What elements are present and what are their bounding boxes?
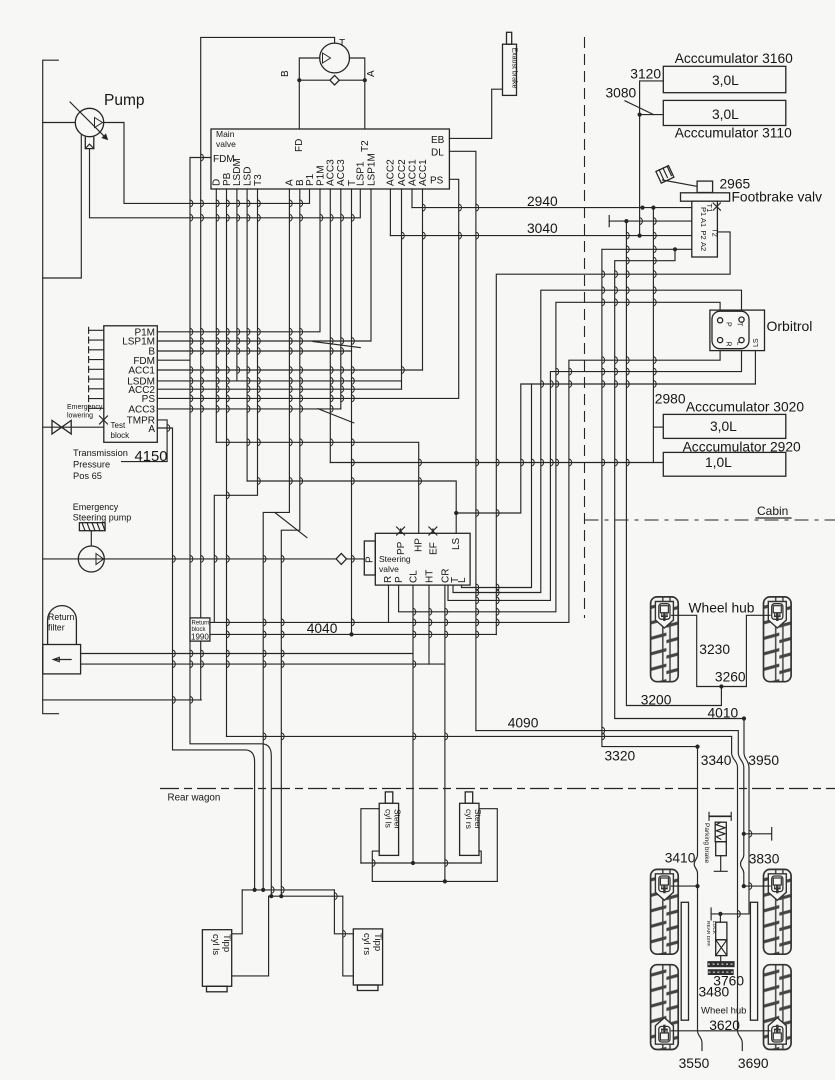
wire test block TMPR with 4150 leader — [122, 420, 168, 462]
svg-text:3620: 3620 — [709, 1018, 740, 1033]
diff lock hatched bar 1 — [707, 961, 734, 967]
wire B-A link with check valve — [299, 79, 365, 81]
svg-text:4150: 4150 — [135, 449, 168, 465]
wire steer line lower — [372, 880, 497, 882]
svg-text:3080: 3080 — [606, 86, 637, 101]
wire tank line left border — [43, 60, 59, 714]
svg-text:ACC2: ACC2 — [397, 159, 408, 186]
LEFT-BORDER-GROUP — [43, 60, 445, 714]
parking brake drain — [714, 856, 727, 872]
svg-text:LSD: LSD — [242, 167, 253, 186]
svg-text:A: A — [366, 70, 377, 77]
footbrake pedal lever — [663, 180, 698, 187]
svg-text:3830: 3830 — [749, 852, 780, 867]
wire 3340 down rear left hubs — [694, 747, 702, 1051]
wheel hub icon rear right lower — [768, 1018, 786, 1045]
svg-text:3040: 3040 — [527, 221, 558, 236]
svg-text:ACC1: ACC1 — [128, 366, 155, 377]
wire diamond to P tab — [347, 558, 365, 560]
MAINVALVE-GROUP — [157, 32, 517, 898]
diff lock stem lower — [720, 956, 722, 962]
wire steering R to return line — [388, 585, 390, 622]
svg-text:3320: 3320 — [605, 749, 636, 764]
TESTBLOCK-GROUP — [73, 326, 167, 481]
wire pump LS to LSP1 — [90, 149, 361, 218]
svg-text:ACC3: ACC3 — [336, 159, 347, 186]
node FDM tipp junction — [269, 894, 273, 898]
wire footbrake A2 to rear 3320 — [602, 249, 698, 746]
bogie beam left — [681, 902, 688, 1020]
plug bar on A1 line — [608, 216, 610, 227]
wire tipp ls bottom port — [232, 896, 269, 976]
tire front right — [764, 597, 792, 682]
svg-text:LS: LS — [753, 338, 760, 347]
pump variable displacement arrow — [70, 102, 106, 138]
svg-text:Parking brake: Parking brake — [703, 823, 710, 863]
wire return block to steering R and orbitrol R — [210, 621, 569, 623]
wire LSD to steering LS — [247, 481, 456, 513]
tipp cylinder rs body — [353, 929, 382, 985]
svg-text:REAR DIFF.: REAR DIFF. — [705, 921, 711, 947]
wire test block LSP1M — [157, 189, 371, 341]
svg-text:Pos 65: Pos 65 — [73, 471, 102, 481]
steering PP stub with X — [397, 527, 405, 535]
steer cylinder ls rod — [385, 792, 393, 803]
tipp cylinder ls foot — [207, 986, 228, 992]
wire steering CR down to steer cyl line — [444, 585, 446, 881]
pump drain port box — [85, 137, 94, 149]
tire rear right lower — [764, 965, 792, 1050]
wheel hub icon front left — [655, 602, 673, 629]
wire 2940 brake line ACC1 to footbrake P1 — [412, 207, 692, 209]
svg-text:ACC1: ACC1 — [407, 159, 418, 186]
wire emergency lowering line — [43, 426, 104, 428]
3080 leader line — [625, 101, 654, 115]
svg-text:lowering: lowering — [67, 413, 93, 420]
svg-text:3,0L: 3,0L — [712, 73, 739, 88]
wire pin ACC3 down — [329, 189, 331, 463]
wire steering CL down to steer cyl line — [412, 585, 414, 863]
svg-text:A1: A1 — [699, 218, 708, 227]
bogie beam right — [750, 902, 757, 1020]
svg-text:EF: EF — [428, 542, 439, 555]
wire orbitrol P to steering P — [399, 302, 720, 612]
wire PB 4090 down to rear bottom hubs — [732, 736, 743, 1050]
svg-text:2940: 2940 — [527, 194, 558, 209]
wire emergency steering line — [43, 558, 337, 560]
wire B to FD port — [298, 80, 300, 129]
emergency steering pump shaft — [90, 531, 92, 546]
wire pin ACC1 down to 2940 — [411, 189, 413, 208]
wire 4090 line — [227, 735, 732, 737]
svg-text:Acccumulator 3110: Acccumulator 3110 — [675, 126, 792, 141]
wire pump pressure to P1 — [104, 123, 310, 204]
wire test block B — [157, 350, 351, 352]
steering valve box — [375, 533, 470, 585]
wire return filter line upper — [81, 653, 413, 655]
steer cylinder rs bracket outer — [479, 809, 497, 882]
svg-text:P: P — [394, 576, 405, 583]
svg-text:3550: 3550 — [679, 1056, 710, 1071]
wire tipp B line — [269, 895, 343, 897]
tipp cylinder ls body — [202, 930, 231, 987]
return filter flow arrow — [53, 657, 71, 661]
STEERING-GROUP — [336, 513, 470, 622]
wire crossing hops — [167, 154, 752, 937]
wire steering T to LS line link — [462, 384, 532, 588]
wire pin LSD down — [246, 189, 248, 481]
svg-text:Steering pump: Steering pump — [73, 513, 132, 523]
steering LS stub — [455, 513, 457, 533]
svg-text:valve: valve — [379, 564, 399, 574]
pump triangle — [95, 118, 103, 128]
svg-text:1990: 1990 — [191, 633, 209, 642]
wire test block ACC1 — [157, 369, 422, 371]
emergency steering pump circle — [78, 546, 104, 572]
svg-text:P1: P1 — [699, 207, 708, 216]
wire EB to exhaust brake — [449, 89, 502, 138]
wire pin ACC2b down — [401, 189, 403, 389]
svg-text:3230: 3230 — [699, 642, 730, 657]
svg-text:Footbrake valv: Footbrake valv — [732, 190, 823, 205]
emergency lowering valve — [52, 420, 71, 434]
WIRES-MID — [122, 37, 835, 892]
orbitrol rounded body — [712, 311, 749, 349]
wire pin LSDM down to test line — [236, 189, 238, 381]
svg-text:4040: 4040 — [307, 621, 338, 636]
accumulator 3020 box — [663, 414, 786, 438]
pump main circle — [75, 108, 103, 136]
svg-text:Acccumulator 3160: Acccumulator 3160 — [675, 51, 793, 66]
cabin label underline — [756, 517, 791, 519]
svg-text:3690: 3690 — [738, 1056, 769, 1071]
diff lock hatched bar 2 — [708, 969, 734, 975]
wire PS to test block — [157, 179, 458, 398]
node 4010 corner — [742, 716, 746, 720]
diff lock valve upper — [716, 922, 727, 940]
node on 2940 at 2980 drop — [651, 206, 655, 210]
wheel hub icon rear left lower — [655, 1018, 673, 1045]
wire DL line to rear right parking brake — [476, 731, 744, 887]
wire pin T down — [351, 189, 353, 634]
slash mark over bundle upper — [313, 342, 360, 348]
svg-text:3480: 3480 — [699, 985, 730, 1000]
wire A1 down to front wheel hubs 3200 — [626, 221, 721, 705]
svg-text:3410: 3410 — [665, 851, 696, 866]
accumulator 3160 box — [663, 66, 786, 92]
ORBITROL-GROUP — [0, 0, 1, 1]
wire pin ACC2 down to 3040 — [389, 189, 391, 236]
svg-text:T2: T2 — [360, 140, 371, 152]
svg-text:LS: LS — [451, 537, 462, 550]
test block left measuring stubs — [89, 327, 104, 411]
svg-text:P1: P1 — [305, 173, 316, 186]
svg-text:DL: DL — [431, 148, 444, 159]
orbitrol port T circle — [739, 317, 744, 322]
node CL steer junction — [411, 861, 415, 865]
node A1 junction — [624, 219, 628, 223]
svg-text:A: A — [148, 424, 155, 435]
footbrake pedal plate — [656, 166, 674, 184]
node A test tipp junction — [253, 888, 257, 892]
svg-text:filter: filter — [48, 623, 65, 633]
steer cylinder rs body — [460, 803, 479, 855]
wire test block FDM — [157, 359, 190, 361]
svg-text:3,0L: 3,0L — [710, 419, 737, 434]
wire pump case drain to tank — [43, 134, 82, 278]
wire motor T drain going left and down — [201, 37, 335, 700]
svg-text:4090: 4090 — [508, 716, 539, 731]
svg-text:Emergency: Emergency — [73, 502, 119, 512]
wire steer line upper — [361, 862, 481, 864]
accumulator 2920 box — [663, 452, 786, 476]
svg-text:L: L — [457, 577, 468, 583]
svg-text:R: R — [725, 342, 732, 347]
wire pin D down — [215, 189, 217, 442]
wire footbrake T2 return to steering CL line — [496, 232, 730, 635]
orbitrol outer box — [710, 310, 765, 351]
steer cylinder ls body — [379, 803, 398, 855]
wire test block P1M — [157, 189, 320, 332]
svg-text:T: T — [736, 322, 743, 327]
wire pin ACC3b down — [340, 189, 342, 409]
svg-text:Exaust brake: Exaust brake — [511, 48, 518, 89]
return filter dome — [48, 606, 77, 645]
wire steering HT down — [428, 585, 430, 664]
node 3320 to 3340 — [695, 745, 699, 749]
svg-text:HP: HP — [414, 538, 425, 552]
wire tipp A line — [242, 889, 334, 891]
wire pin T3 down then left then down to return block line — [214, 189, 257, 622]
slash mark over bundle mid — [318, 409, 354, 423]
svg-text:Pressure: Pressure — [73, 460, 110, 470]
svg-text:Cabin: Cabin — [757, 504, 788, 518]
node diff lock supply — [718, 912, 722, 916]
wire test block LSDM — [157, 380, 401, 382]
steer cylinder rs bracket inner — [479, 851, 481, 863]
diff lock valve lower with X — [716, 940, 727, 956]
node pin T at 4040 line — [349, 632, 353, 636]
PUMP-GROUP — [43, 92, 361, 218]
svg-text:Tipp: Tipp — [372, 933, 383, 951]
wire rear bottom hub line 3620 — [672, 1030, 771, 1032]
svg-text:A: A — [285, 179, 296, 186]
emergency steering pump coupling — [79, 523, 105, 531]
check valve diamond — [330, 75, 339, 85]
node steering LS junction — [454, 511, 458, 515]
svg-text:ACC3: ACC3 — [128, 405, 155, 416]
wire return filter line lower — [81, 663, 445, 665]
wire 3040 brake line ACC2 to footbrake P2 — [390, 235, 691, 237]
svg-text:ACC3: ACC3 — [326, 159, 337, 186]
slash mark over bundle lower — [275, 513, 307, 538]
svg-text:Return: Return — [192, 621, 210, 627]
wire accumulator 3080 vertical — [639, 115, 641, 236]
tipp cylinder rs foot — [357, 985, 378, 991]
svg-text:P: P — [365, 556, 376, 563]
wire parking brake plug line — [744, 828, 772, 840]
svg-text:P: P — [725, 322, 732, 327]
svg-text:ACC1: ACC1 — [418, 159, 429, 186]
node 3080 junction — [638, 113, 642, 117]
svg-text:ACC2: ACC2 — [386, 159, 397, 186]
tire front left — [651, 597, 679, 682]
wire rear left hub tap — [672, 885, 698, 887]
wire motor case drain return to tank — [43, 699, 202, 701]
wire motor A branch — [349, 58, 364, 80]
wheel hub icon front right — [768, 602, 786, 629]
wire test block ACC2 — [157, 388, 401, 390]
footbrake pedal roller — [697, 181, 713, 192]
wire steering LS junction to orbitrol LS — [456, 351, 755, 513]
svg-text:3260: 3260 — [715, 670, 746, 685]
BOTTOM-GROUP — [160, 601, 835, 1072]
wire orbitrol R to return line — [569, 343, 720, 623]
svg-text:3200: 3200 — [641, 693, 672, 708]
rear wagon boundary dashed line — [160, 788, 835, 790]
svg-text:FD: FD — [294, 139, 305, 152]
test block box — [104, 326, 158, 443]
wire accumulator 3110 link — [640, 114, 664, 116]
svg-text:R: R — [383, 576, 394, 583]
exhaust brake top — [507, 32, 512, 44]
node front hub junction 3260 — [719, 684, 723, 688]
svg-text:LSP1M: LSP1M — [366, 153, 377, 186]
wire footbrake A1 to plug — [609, 220, 692, 222]
wire diff lock stem — [719, 914, 721, 922]
wire pin A down to tipp line — [263, 189, 289, 890]
parking brake spring box — [715, 822, 726, 842]
svg-text:cyl ls: cyl ls — [210, 934, 221, 955]
cabin boundary dashed horizontal — [585, 519, 835, 521]
svg-text:Main: Main — [216, 129, 235, 139]
svg-text:block: block — [111, 431, 131, 440]
wire FDM to tipp line — [190, 158, 271, 897]
svg-text:Orbitrol: Orbitrol — [767, 318, 813, 334]
svg-text:Wheel hub: Wheel hub — [689, 601, 755, 616]
node pin B tipp junction — [279, 894, 283, 898]
node rear right hub tap — [742, 884, 746, 888]
node A2 branch — [673, 247, 677, 251]
node pin A tipp junction — [261, 888, 265, 892]
wire return block 4040 line — [210, 633, 496, 635]
svg-text:4010: 4010 — [708, 706, 739, 721]
fan motor circle — [320, 43, 350, 73]
svg-text:T3: T3 — [253, 174, 264, 186]
steer cylinder rs rod — [465, 792, 473, 803]
wire tank to pump suction — [43, 122, 76, 124]
wire ACC3 to accumulator 2920 — [330, 462, 663, 464]
wire branch to accumulator 3020 — [653, 426, 663, 428]
svg-text:cyl rs: cyl rs — [464, 809, 474, 829]
parking brake valve body — [716, 842, 727, 856]
svg-text:L: L — [736, 342, 743, 346]
footbrake T1 plug X — [713, 203, 720, 210]
orbitrol port L circle — [739, 338, 744, 343]
wire tipp rs bottom port — [343, 896, 354, 976]
wire tipp ls top port — [232, 890, 243, 934]
wire rear right hub tap — [744, 885, 770, 887]
wire 4010 down to diff lock — [720, 719, 749, 914]
svg-text:EB: EB — [431, 135, 445, 146]
node A — [363, 78, 367, 82]
footbrake valve top plate — [681, 193, 730, 201]
check valve diamond on P line — [336, 553, 346, 564]
emergency steering pump triangle — [96, 554, 104, 565]
MOTOR-GROUP — [201, 37, 377, 700]
svg-text:Transmission: Transmission — [73, 448, 128, 458]
tire rear right upper — [764, 869, 792, 954]
wire orbitrol L to steering L — [448, 343, 742, 601]
accumulator 3110 box — [663, 100, 786, 125]
steer cylinder ls bracket inner — [372, 851, 379, 881]
wire A to T2 port — [364, 80, 366, 129]
svg-text:PB: PB — [222, 172, 233, 186]
svg-text:HT: HT — [424, 570, 435, 583]
svg-text:valve: valve — [216, 139, 236, 149]
svg-text:Return: Return — [48, 612, 75, 622]
svg-text:PP: PP — [396, 541, 407, 555]
steer cylinder ls bracket outer — [361, 809, 379, 863]
svg-text:B: B — [280, 70, 291, 77]
svg-text:A2: A2 — [699, 242, 708, 251]
svg-text:Emergency: Emergency — [67, 404, 103, 411]
svg-text:cyl ls: cyl ls — [384, 809, 394, 828]
svg-text:3,0L: 3,0L — [712, 107, 739, 122]
wire test block A to tipp line — [157, 428, 254, 890]
node CR steer junction — [443, 879, 447, 883]
return block box — [190, 618, 210, 641]
svg-text:Wheel hub: Wheel hub — [701, 1006, 746, 1017]
node on 2940 at accumulator drop — [640, 206, 644, 210]
svg-text:Acccumulator 3020: Acccumulator 3020 — [686, 400, 804, 415]
steering valve P tab — [364, 541, 375, 575]
fan motor triangle — [323, 53, 331, 63]
svg-text:P2: P2 — [699, 231, 708, 240]
node on 3040 at accumulator vertical — [638, 234, 642, 238]
footbrake valve body — [692, 201, 718, 257]
wheel hub icon rear left upper — [655, 874, 673, 901]
svg-text:T: T — [339, 38, 345, 49]
RIGHTTOP-GROUP — [606, 51, 823, 476]
wire D to steering HP — [216, 442, 418, 533]
svg-text:PS: PS — [430, 176, 444, 187]
wheel hub icon rear right upper — [768, 874, 786, 901]
wire 3120 — [640, 81, 664, 115]
wire orbitrol T to steering T — [453, 290, 742, 592]
wire A2 branch down to 4010 — [615, 249, 744, 718]
orbitrol port P circle — [718, 318, 723, 323]
orbitrol port R circle — [718, 338, 723, 343]
svg-text:T2: T2 — [711, 228, 720, 237]
parking brake spring zigzag — [716, 822, 725, 839]
parking brake anchor bar — [709, 815, 731, 817]
node B — [297, 78, 301, 82]
wire tipp rs top port — [334, 890, 353, 934]
wire pin PB down to 4090 — [226, 189, 228, 736]
wire test block ACC3 — [157, 408, 340, 410]
svg-text:Pump: Pump — [104, 92, 145, 109]
TIRES-GROUP — [651, 597, 792, 1050]
svg-text:Test: Test — [111, 421, 126, 430]
svg-text:3120: 3120 — [630, 67, 661, 82]
test block X mark — [100, 416, 108, 424]
svg-text:LSP1: LSP1 — [356, 161, 367, 186]
exhaust brake body — [503, 44, 517, 95]
svg-text:1,0L: 1,0L — [705, 455, 732, 470]
svg-text:3340: 3340 — [701, 753, 732, 768]
node rear left hub tap — [695, 884, 699, 888]
